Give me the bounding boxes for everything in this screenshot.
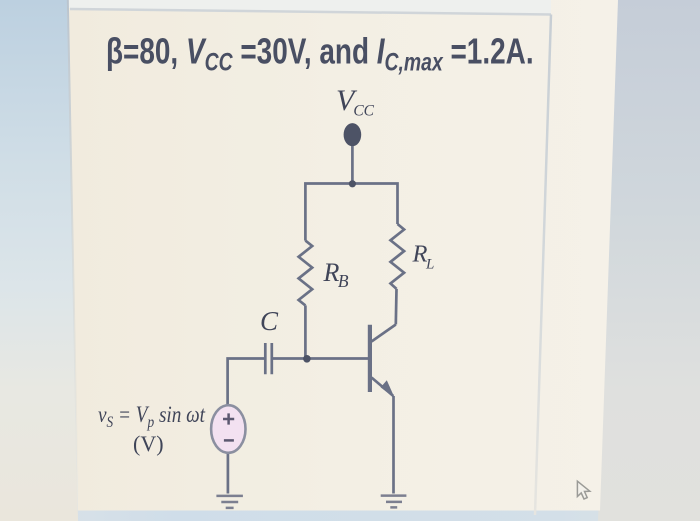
resistor RB: [299, 241, 313, 306]
node rail junction: [349, 180, 356, 187]
cursor pointer: [577, 481, 589, 499]
wire emitter down: [392, 396, 395, 494]
transistor Q1 base bar: [368, 325, 372, 392]
transistor Q1 emitter diagonal: [372, 378, 394, 397]
ground right: [381, 496, 407, 508]
node Vcc supply dot: [344, 123, 362, 146]
wire top rail: [305, 184, 397, 241]
wire source bottom: [227, 453, 230, 494]
capacitor C plates: [265, 343, 272, 374]
svg-text:C: C: [260, 306, 279, 336]
page: [67, 0, 618, 511]
transistor Q1 collector diagonal: [372, 325, 396, 342]
node base junction: [303, 355, 311, 363]
source plus sign: [223, 413, 234, 424]
wire RL to collector: [394, 289, 397, 325]
left strip: [0, 0, 78, 521]
transistor Q1 emitter arrow: [381, 380, 395, 398]
right strip: [598, 0, 700, 521]
wire source to capacitor: [228, 359, 264, 406]
svg-text:(V): (V): [133, 431, 164, 456]
wire Vcc dot to rail: [351, 146, 354, 184]
svg-text:β=80, VCC =30V, and IC,max =1.: β=80, VCC =30V, and IC,max =1.2A.: [106, 31, 534, 76]
ground left: [216, 496, 243, 508]
resistor RL: [391, 224, 405, 289]
frame border right: [535, 15, 551, 516]
source minus sign: [224, 439, 234, 442]
wire RB bottom lead: [304, 305, 307, 358]
wire base: [273, 357, 368, 360]
title: [106, 31, 534, 76]
page left edge shading: [68, 0, 78, 510]
top margin band: [67, 0, 551, 14]
frame border top: [70, 9, 551, 15]
bottom strip: [0, 0, 1, 1]
source VS circle: [211, 405, 245, 453]
